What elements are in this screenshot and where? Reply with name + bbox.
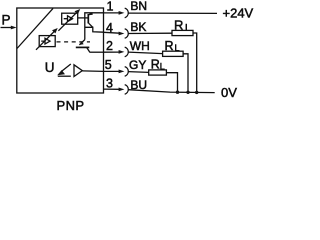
Q1 collector route to pin4: [85, 27, 104, 32]
amplifier triangle: [74, 65, 82, 77]
connector arrow 3: [119, 88, 125, 92]
P input wire: [1, 27, 15, 29]
P arrowhead: [11, 26, 17, 30]
trigger glyph A1: [64, 16, 73, 22]
connector socket 4: [125, 29, 129, 39]
Q2 emitter: [79, 40, 84, 45]
svg-text:0V: 0V: [221, 85, 237, 100]
resistor RL2: [163, 51, 184, 56]
svg-text:+24V: +24V: [223, 6, 254, 21]
wire pin3: [104, 88, 120, 90]
wire BU to 0V: [128, 90, 214, 93]
connector socket 3: [125, 85, 129, 95]
wire BN to +24V: [128, 12, 217, 14]
U adjust arrow baseline: [58, 75, 71, 77]
internal +V wire: [85, 13, 104, 40]
trigger glyph A2: [41, 38, 50, 44]
connector arrow 2: [119, 50, 125, 54]
wire pin5: [104, 70, 120, 72]
adjust arrow A2: [36, 31, 55, 50]
connector arrow 1: [119, 11, 125, 15]
junction BK rail: [195, 91, 198, 94]
connector arrow 5: [119, 70, 125, 74]
proximity diagonal: [17, 8, 53, 48]
svg-text:GY: GY: [129, 58, 146, 72]
Q1 collector: [89, 23, 93, 27]
Q2 collector: [87, 48, 90, 52]
wire pin5 inside: [82, 70, 103, 73]
connector socket 1: [125, 8, 129, 18]
resistor RL3: [149, 70, 167, 75]
svg-text:U: U: [45, 60, 55, 75]
svg-text:P: P: [2, 12, 11, 27]
Q1 emitter: [89, 13, 93, 15]
junction WH rail: [186, 91, 189, 94]
adjuster A1 box (upper): [62, 13, 78, 24]
junction GY rail: [176, 91, 179, 94]
wire pin4: [104, 31, 120, 34]
connector socket 2: [125, 47, 129, 57]
wire RL1 to rail: [193, 33, 197, 92]
svg-text:2: 2: [106, 39, 113, 53]
svg-text:5: 5: [105, 58, 112, 72]
wire RL2 to rail: [183, 54, 188, 93]
Q2 emitter arrow: [79, 41, 83, 45]
transistor Q2 base bar: [76, 46, 90, 48]
svg-text:BN: BN: [130, 0, 147, 13]
wire2 inside: [89, 51, 103, 53]
wire GY: [128, 71, 148, 74]
dashed base wire to Q2: [57, 41, 91, 43]
wire pin2: [104, 51, 120, 53]
wire RL3 to rail: [166, 73, 177, 92]
svg-text:BK: BK: [130, 20, 146, 34]
connector arrow 4: [119, 32, 125, 36]
wire pin1: [104, 12, 120, 14]
base wire A1 to Q1: [78, 17, 89, 19]
adjust arrow A1: [58, 12, 77, 31]
svg-text:PNP: PNP: [57, 98, 85, 113]
U adjust arrow: [62, 64, 71, 71]
svg-text:WH: WH: [130, 39, 150, 53]
sensor box outline: [17, 8, 104, 93]
svg-text:1: 1: [107, 0, 114, 13]
adjuster A2 box (lower): [39, 36, 55, 47]
wire WH: [128, 52, 162, 54]
Q1 emitter arrow: [89, 12, 93, 15]
wire BK: [128, 32, 172, 34]
connector socket 5: [125, 67, 129, 77]
resistor RL1: [172, 30, 193, 35]
transistor Q1 base bar: [87, 14, 89, 23]
